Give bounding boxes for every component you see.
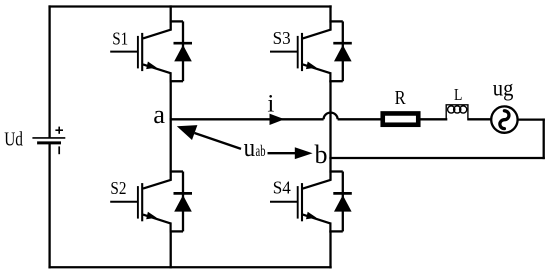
diode D1 branch wire — [182, 21, 184, 81]
wire right leg collector stub S3 — [329, 5, 331, 30]
wire left leg collector stub S1 — [170, 5, 172, 30]
wire bottom jog D1 — [170, 80, 184, 82]
svg-text:a: a — [153, 99, 165, 129]
diode D4 branch wire — [342, 172, 344, 232]
wire bottom jog D2 — [170, 230, 184, 232]
IGBT S2 — [110, 180, 171, 233]
wire left leg node a to S2 — [170, 118, 172, 181]
wire ug to right corner — [518, 118, 545, 120]
IGBT S3 — [270, 30, 331, 83]
svg-text:b: b — [315, 140, 328, 169]
wire jog to diode D3 — [329, 20, 342, 22]
battery plus sign — [55, 127, 63, 134]
IGBT S4 — [270, 180, 331, 233]
wire jog to diode D1 — [170, 20, 183, 22]
svg-text:L: L — [454, 85, 462, 104]
annotation arrow uab to node b — [268, 147, 313, 159]
diode D3 triangle — [334, 45, 352, 62]
wire crossover to resistor R — [338, 118, 382, 120]
svg-text:S2: S2 — [110, 178, 126, 198]
diode D2 triangle — [174, 195, 192, 212]
AC source ug circle — [491, 106, 517, 132]
wire left rail upper — [48, 5, 50, 138]
wire right vertical return — [543, 118, 545, 159]
wire left leg S1 to node a — [170, 81, 172, 120]
diode D1 triangle — [174, 45, 192, 62]
wire bottom jog D3 — [329, 80, 343, 82]
wire bottom rail — [48, 266, 331, 268]
diode D2 cathode bar — [174, 192, 193, 195]
inductor L — [446, 105, 469, 121]
AC source sine symbol — [500, 111, 509, 129]
svg-text:S3: S3 — [273, 28, 291, 48]
svg-text:Ud: Ud — [4, 128, 23, 150]
DC source Ud battery — [32, 138, 65, 143]
label uab — [244, 133, 266, 162]
wire output node a to crossover — [170, 118, 324, 120]
wire top rail — [48, 5, 331, 7]
resistor R — [383, 113, 419, 124]
diode D4 cathode bar — [333, 192, 352, 195]
wire left leg S2 to bottom rail — [170, 231, 172, 268]
battery minus sign — [58, 146, 60, 154]
diode D4 triangle — [334, 195, 352, 212]
crossover hop over right leg — [324, 113, 338, 120]
current arrow i — [270, 114, 285, 125]
wire bottom return to node b — [329, 157, 544, 159]
wire L to source ug — [468, 118, 491, 120]
svg-text:ug: ug — [493, 76, 514, 101]
wire jog to diode D4 — [329, 170, 342, 172]
wire right leg S3 through node b to S4 — [329, 81, 331, 181]
svg-text:S4: S4 — [273, 178, 291, 198]
wire right leg S4 to bottom rail — [329, 231, 331, 268]
wire jog to diode D2 — [170, 170, 183, 172]
svg-text:u: u — [244, 133, 256, 162]
IGBT S1 — [110, 30, 171, 83]
diode D3 branch wire — [342, 21, 344, 81]
svg-text:ab: ab — [256, 143, 266, 160]
diode D1 cathode bar — [174, 42, 193, 45]
wire bottom jog D4 — [329, 230, 343, 232]
annotation arrow uab to node a — [177, 125, 241, 149]
diode D3 cathode bar — [333, 42, 352, 45]
svg-text:S1: S1 — [112, 28, 128, 48]
svg-text:i: i — [267, 91, 274, 118]
diode D2 branch wire — [182, 172, 184, 232]
svg-text:R: R — [395, 87, 407, 109]
wire R to inductor L — [421, 118, 448, 120]
wire left rail lower — [48, 143, 50, 269]
